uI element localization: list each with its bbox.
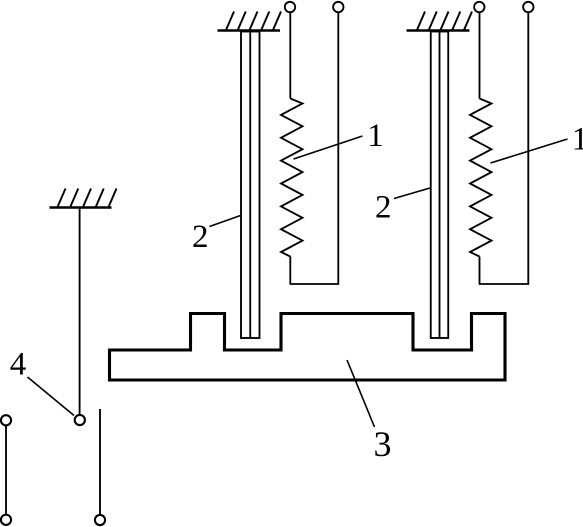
wire below spring (right): [480, 13, 529, 284]
left contact post bottom circle: [1, 515, 11, 525]
guide rod 2 (right) center line: [439, 32, 441, 339]
leader line for label 2 (right): [394, 188, 430, 199]
ceiling support (left assembly): [218, 29, 281, 31]
right contact wire: [99, 409, 101, 514]
leader line for label 2 (left): [210, 216, 241, 227]
svg-text:2: 2: [192, 219, 209, 255]
spring 1 (left) zigzag: [281, 99, 303, 257]
pendulum contact ball 4: [75, 415, 85, 425]
svg-text:3: 3: [374, 424, 392, 464]
base block 3 outline: [110, 314, 506, 381]
ceiling hatching (pendulum mount): [58, 189, 117, 208]
ceiling support (pendulum mount): [50, 206, 112, 208]
svg-text:4: 4: [10, 347, 27, 383]
svg-text:1: 1: [367, 118, 384, 154]
guide rod 2 (left) center line: [249, 32, 251, 339]
leader line for label 3: [347, 360, 375, 427]
terminal circle (left spring, left): [285, 2, 295, 12]
spring 1 (right) zigzag: [470, 99, 492, 257]
guide rod 2 (left) outline: [241, 32, 260, 339]
leader line for label 1 (right): [491, 139, 568, 163]
wire from terminal to spring (left): [289, 13, 291, 99]
right contact bottom circle: [95, 515, 105, 525]
pendulum rod wire: [79, 208, 81, 415]
terminal circle (right spring, right): [523, 2, 533, 12]
leader line for label 1 (left): [294, 136, 363, 159]
svg-text:1: 1: [572, 122, 583, 158]
left contact post wire: [5, 426, 7, 515]
terminal circle (left spring, right): [333, 2, 343, 12]
ceiling hatching (right assembly): [417, 12, 472, 31]
wire below spring (left): [290, 13, 338, 284]
terminal circle (right spring, left): [474, 2, 484, 12]
svg-text:2: 2: [375, 190, 392, 226]
ceiling support (right assembly): [407, 29, 470, 31]
left contact post top circle: [1, 415, 11, 425]
ceiling hatching (left assembly): [226, 12, 281, 31]
wire from terminal to spring (right): [479, 13, 481, 99]
leader line for label 4: [28, 377, 75, 416]
guide rod 2 (right) outline: [431, 32, 449, 339]
